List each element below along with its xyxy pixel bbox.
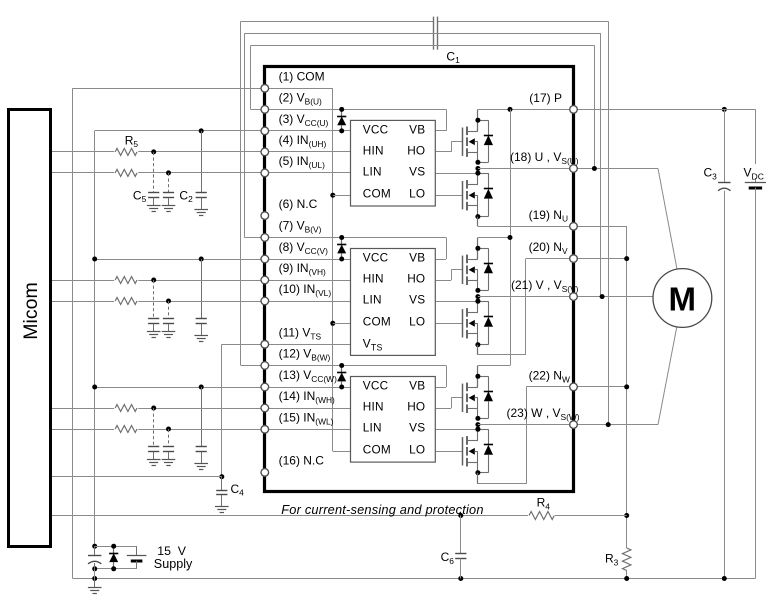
svg-text:15 V: 15 V [157, 544, 187, 558]
node QWH drain junction [475, 374, 480, 379]
wire P rail to VDC corner [574, 109, 756, 111]
wire HO gate W [435, 408, 451, 410]
transistor QVL gate bar [462, 309, 464, 337]
pin 19 terminal [570, 223, 578, 231]
wire NW source to pin22 [477, 473, 479, 484]
IPM module outline [265, 67, 574, 492]
ground bypass cap U [201, 198, 203, 210]
wire COM net vertical (pin1 to ground) [72, 88, 74, 578]
node loop tap V [600, 294, 605, 299]
node IN(WH) filter tap [151, 406, 156, 411]
transistor QUH gate bar [462, 128, 464, 156]
wire VB(V) loop left vertical [244, 34, 246, 238]
wire motor lead W diagonal [658, 327, 677, 425]
pin 21 terminal [570, 293, 578, 301]
ground filter cap IN(WH) [153, 452, 155, 460]
transistor QVH body arrow [469, 266, 475, 273]
transistor QWL body arrow [469, 448, 475, 455]
pin 16 terminal [261, 469, 269, 477]
transistor QVH drain stub [467, 259, 478, 261]
wire N rail pin19 [574, 226, 627, 228]
diode body-QVH [478, 248, 489, 250]
wire NU source to pin19 [477, 217, 479, 227]
pin 7 terminal [261, 234, 269, 242]
node P rail junction x510 [508, 107, 513, 112]
svg-text:HIN: HIN [363, 399, 384, 413]
wire VB(V) loop right vertical [600, 34, 602, 297]
node IN(VH) filter tap [151, 278, 156, 283]
node VCC(W) bypass tap [199, 385, 204, 390]
wire motor lead U diagonal [658, 169, 677, 270]
node ground bus supply [92, 576, 97, 581]
wire VTS to Micom [51, 476, 222, 478]
wire LO gate U [435, 195, 463, 197]
svg-text:HO: HO [407, 399, 425, 413]
wire P rail [478, 109, 574, 111]
capacitor filter IN(WL) [163, 446, 174, 448]
diode bootstrap V [341, 238, 343, 245]
pin 12 terminal [261, 362, 269, 370]
wire COM rail vertical [332, 88, 334, 451]
node drain rail V junction [508, 235, 513, 240]
node QVH source junction [475, 288, 480, 293]
pin 1 terminal [261, 85, 269, 93]
svg-text:VCC: VCC [363, 122, 389, 136]
pin 3 terminal [261, 127, 269, 135]
wire COM to driver3 [333, 451, 351, 453]
pin 22 terminal [570, 383, 578, 391]
ground filter cap IN(UL) [168, 198, 170, 206]
pin 2 terminal [261, 106, 269, 114]
node N rail pin20 [624, 256, 629, 261]
wire bypass cap U drop [201, 131, 203, 193]
node phase V output junction [475, 294, 480, 299]
pin 8 terminal [261, 255, 269, 263]
capacitor filter IN(UL) [163, 192, 174, 194]
diode bootstrap U [341, 109, 343, 116]
node VS junction V [475, 299, 480, 304]
node IN(UH) filter tap [151, 149, 156, 154]
transistor QVL drain stub [467, 312, 478, 314]
resistor R3 [623, 548, 631, 571]
pin 13 terminal [261, 383, 269, 391]
capacitor filter IN(UH) drop [153, 152, 155, 193]
transistor QUL gate bar [462, 181, 464, 209]
node 15V rail tap V [92, 257, 97, 262]
wire P distribution vertical [510, 109, 512, 365]
capacitor bypass W [196, 446, 207, 448]
capacitor filter IN(UH) C5 [148, 192, 159, 194]
node phase W output junction [475, 422, 480, 427]
battery VDC [755, 109, 757, 182]
capacitor supply electrolytic [94, 546, 96, 555]
op-amp gate-driver U1 [351, 120, 436, 206]
wire drain rail W [478, 365, 510, 367]
transistor QUH source stub [467, 152, 478, 154]
transistor QUL body arrow [469, 192, 475, 199]
wire IN(VH) from Micom [51, 280, 351, 282]
capacitor filter IN(WH) drop [153, 408, 155, 447]
wire supply top [95, 546, 137, 548]
wire drain rail riser W [477, 366, 479, 388]
transistor QUH channel [466, 127, 468, 136]
transistor QVH channel [466, 255, 468, 264]
svg-text:LO: LO [409, 187, 425, 201]
node IN(VL) filter tap [166, 299, 171, 304]
node QUL drain junction [475, 171, 480, 176]
node QUH drain junction [475, 118, 480, 123]
svg-text:VCC: VCC [363, 250, 389, 264]
wire bypass cap V drop [201, 259, 203, 319]
wire VB(V) pin to driver [244, 237, 446, 239]
wire VCC(V) from 15V rail [95, 259, 351, 261]
node QVL source junction [475, 342, 480, 347]
wire N rail vertical [626, 226, 628, 548]
transistor QWL drain stub [467, 440, 478, 442]
node VS junction U [475, 171, 480, 176]
svg-text:COM: COM [363, 315, 391, 329]
transistor QUH body arrow [469, 138, 475, 145]
svg-text:LIN: LIN [363, 164, 382, 178]
op-amp gate-driver U3 [351, 377, 436, 463]
node VCC(V) bypass tap [199, 257, 204, 262]
wire LO gate W [435, 451, 463, 453]
node ground bus C6 [458, 576, 463, 581]
pin 5 terminal [261, 169, 269, 177]
wire ground bus bottom [73, 578, 756, 580]
ground filter cap IN(WL) [168, 452, 170, 460]
ground bypass cap V [201, 324, 203, 336]
transistor QVL channel [466, 308, 468, 317]
diode bootstrap W [341, 366, 343, 373]
wire VB(W) loop left vertical [240, 21, 242, 365]
capacitor filter IN(VL) [163, 318, 174, 320]
resistor R4 [528, 511, 555, 521]
transistor QWH channel [466, 383, 468, 392]
capacitor C6 [460, 516, 462, 554]
pin 9 terminal [261, 276, 269, 284]
resistor series IN(VL) [114, 296, 138, 306]
capacitor bypass V [196, 318, 207, 320]
wire P rail riser [477, 109, 479, 131]
wire 15V rail vertical [94, 131, 96, 546]
wire phase V output (21) [478, 296, 653, 298]
wire bypass cap W drop [201, 387, 203, 447]
ground bypass cap W [201, 452, 203, 464]
svg-text:VCC: VCC [363, 378, 389, 392]
Micom U100 [9, 110, 51, 547]
capacitor bypass U C2 [196, 192, 207, 194]
node QUH source junction [475, 160, 480, 165]
pin 18 terminal [570, 165, 578, 173]
transistor QVH gate bar [462, 256, 464, 284]
diode body-QWH [478, 376, 489, 378]
svg-text:LIN: LIN [363, 420, 382, 434]
transistor QVL body arrow [469, 320, 475, 327]
svg-text:(17) P: (17) P [529, 91, 562, 105]
wire N rail pin22 [574, 386, 627, 388]
transistor QUL source stub [467, 205, 478, 207]
svg-text:VS: VS [409, 164, 425, 178]
node IN(UL) filter tap [166, 170, 171, 175]
capacitor filter IN(VH) drop [153, 280, 155, 319]
node sense C6 junction [458, 513, 463, 518]
pin 6 terminal [261, 212, 269, 220]
wire VB(W) loop right vertical [608, 21, 610, 424]
node supply bottom left [92, 566, 97, 571]
motor M [653, 269, 712, 328]
svg-text:LIN: LIN [363, 292, 382, 306]
capacitor C3 [724, 109, 726, 182]
node loop tap W [606, 422, 611, 427]
wire current-sense from Micom [51, 515, 627, 517]
capacitor C4 [221, 477, 223, 490]
wire IN(UH) from Micom [51, 151, 351, 153]
diode body-QVL [478, 301, 489, 303]
svg-text:HIN: HIN [363, 143, 384, 157]
wire IN(WH) from Micom [51, 408, 351, 410]
node phase U output junction [475, 166, 480, 171]
node COM driver2 [330, 321, 335, 326]
wire HO gate U [435, 151, 451, 153]
wire VCC(U) from 15V rail [95, 130, 351, 132]
pin 15 terminal [261, 426, 269, 434]
svg-text:VB: VB [409, 122, 425, 136]
transistor QWL source stub [467, 462, 478, 464]
node VS junction W [475, 427, 480, 432]
resistor series IN(UL) [114, 168, 138, 178]
wire pin1 COM [73, 88, 333, 90]
wire LO gate V [435, 323, 463, 325]
ground filter cap IN(VH) [153, 324, 155, 332]
battery 15V supply [136, 546, 138, 555]
pin 17 terminal [570, 106, 578, 114]
svg-text:COM: COM [363, 187, 391, 201]
node QVL drain junction [475, 299, 480, 304]
wire VS stub U [435, 173, 478, 175]
wire COM to driver2 [333, 323, 351, 325]
resistor series IN(WL) [114, 424, 138, 434]
wire COM to driver1 [333, 195, 351, 197]
transistor QVH source stub [467, 280, 478, 282]
wire VTS vertical [221, 344, 223, 476]
wire NV source to pin20 [477, 345, 479, 355]
wire VS stub V [435, 301, 478, 303]
transistor QWH gate bar [462, 384, 464, 412]
node QUL source junction [475, 214, 480, 219]
svg-text:HO: HO [407, 143, 425, 157]
node N rail pin22 [624, 384, 629, 389]
transistor QUH drain stub [467, 131, 478, 133]
wire HO gate V [435, 280, 451, 282]
node 15V rail tap W [92, 385, 97, 390]
node loop tap U [592, 166, 597, 171]
node COM driver1 [330, 193, 335, 198]
svg-text:COM: COM [363, 443, 391, 457]
transistor QWH source stub [467, 408, 478, 410]
pin 20 terminal [570, 255, 578, 263]
node QVH drain junction [475, 246, 480, 251]
transistor QWL channel [466, 436, 468, 445]
wire supply bottom [95, 568, 137, 570]
transistor QWH body arrow [469, 394, 475, 401]
svg-text:M: M [669, 280, 697, 317]
wire VB(U) pin to driver [251, 109, 447, 111]
resistor series IN(UH) R5 [114, 147, 138, 157]
svg-text:HIN: HIN [363, 271, 384, 285]
transistor QWH drain stub [467, 387, 478, 389]
svg-text:VB: VB [409, 250, 425, 264]
node IN(WL) filter tap [166, 427, 171, 432]
wire phase W output (23) [478, 424, 658, 426]
pin 11 terminal [261, 341, 269, 349]
diode body-QUL [478, 173, 489, 175]
wire drain rail riser V [477, 238, 479, 260]
op-amp gate-driver U2 [351, 249, 436, 356]
node QWH source junction [475, 416, 480, 421]
ground filter cap IN(VL) [168, 324, 170, 332]
svg-text:HO: HO [407, 271, 425, 285]
svg-text:(1) COM: (1) COM [279, 70, 325, 84]
node ground bus C3 [722, 576, 727, 581]
ground filter cap IN(UH) [153, 198, 155, 206]
wire VB(W) pin to driver [241, 365, 446, 367]
wire VB(U) loop right vertical [594, 46, 596, 169]
svg-text:VB: VB [409, 378, 425, 392]
pin 10 terminal [261, 297, 269, 305]
capacitor filter IN(WL) drop [168, 429, 170, 447]
node N rail sense junction [624, 513, 629, 518]
resistor series IN(WH) [114, 403, 138, 413]
transistor QWL gate bar [462, 437, 464, 465]
svg-text:VS: VS [409, 420, 425, 434]
node supply top left [92, 544, 97, 549]
transistor QUL drain stub [467, 184, 478, 186]
wire IN(VL) from Micom [51, 301, 351, 303]
diode supply [113, 546, 115, 553]
wire supply to ground bus [94, 569, 96, 579]
pin 4 terminal [261, 148, 269, 156]
wire VS stub W [435, 429, 478, 431]
wire pin11 VTS to driver2 [222, 344, 351, 346]
wire VB(W)-VS(W) loop top (outer) [241, 21, 434, 23]
svg-text:(6) N.C: (6) N.C [279, 197, 318, 211]
node P rail C3 junction [722, 107, 727, 112]
wire IN(WL) from Micom [51, 429, 351, 431]
capacitor filter IN(UL) drop [168, 173, 170, 193]
node QWL drain junction [475, 427, 480, 432]
svg-text:Micom: Micom [20, 282, 42, 339]
diode body-QUH [478, 120, 489, 122]
wire N rail pin20 [574, 258, 627, 260]
capacitor filter IN(VH) [148, 318, 159, 320]
node ground bus R3 [624, 576, 629, 581]
wire IN(UL) from Micom [51, 172, 351, 174]
node VTS junction [219, 474, 224, 479]
capacitor filter IN(WH) [148, 446, 159, 448]
wire VB(U) loop left vertical [250, 46, 252, 110]
wire VCC(W) from 15V rail [95, 387, 351, 389]
wire VB(V)-VS(V) loop top (middle) [244, 33, 601, 35]
ground supply [94, 579, 96, 588]
node VCC(U) bypass tap [199, 128, 204, 133]
svg-text:For current-sensing and protec: For current-sensing and protection [281, 502, 483, 517]
pin 23 terminal [570, 421, 578, 429]
svg-text:Supply: Supply [154, 557, 193, 571]
node QWL source junction [475, 470, 480, 475]
capacitor C1 [433, 17, 435, 50]
wire VB(U)-VS(U) loop top (inner) [251, 45, 595, 47]
wire drain rail V [478, 237, 510, 239]
svg-text:LO: LO [409, 315, 425, 329]
wire phase U output (18) [478, 168, 658, 170]
svg-text:LO: LO [409, 443, 425, 457]
label VDC [742, 164, 768, 178]
transistor QUL channel [466, 180, 468, 189]
diode body-QWL [478, 429, 489, 431]
svg-text:VS: VS [409, 292, 425, 306]
svg-text:(16) N.C: (16) N.C [279, 454, 325, 468]
resistor series IN(VH) [114, 275, 138, 285]
capacitor filter IN(VL) drop [168, 301, 170, 319]
transistor QVL source stub [467, 333, 478, 335]
pin 14 terminal [261, 404, 269, 412]
